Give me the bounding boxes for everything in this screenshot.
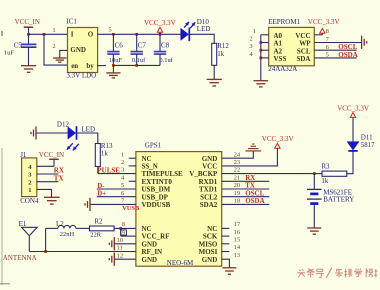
svg-text:5: 5 bbox=[326, 52, 329, 59]
wire antenna to RF_IN bbox=[29, 250, 136, 253]
power symbol VCC_3.3V (GPS VCC) bbox=[222, 135, 294, 166]
svg-text:VSS: VSS bbox=[274, 55, 287, 63]
svg-text:20: 20 bbox=[234, 182, 241, 189]
wire pin1 stub bbox=[129, 157, 136, 159]
svg-text:R3: R3 bbox=[321, 163, 330, 171]
ground (C5) bbox=[21, 66, 36, 73]
svg-text:1k: 1k bbox=[321, 177, 329, 185]
pin 5 label bbox=[121, 182, 124, 189]
capacitor C5 bbox=[4, 34, 37, 65]
svg-text:SDA: SDA bbox=[296, 55, 310, 63]
power symbol VCC_IN (top-left) bbox=[15, 18, 40, 34]
svg-text:1: 1 bbox=[253, 28, 256, 35]
wire node D- bbox=[97, 183, 136, 190]
svg-text:NEO-6M: NEO-6M bbox=[167, 259, 194, 267]
svg-text:0.1uf: 0.1uf bbox=[132, 57, 146, 64]
svg-text:C8: C8 bbox=[161, 42, 170, 50]
svg-text:22nH: 22nH bbox=[60, 231, 75, 238]
LED D12 bbox=[57, 120, 95, 150]
battery MS621FE bbox=[307, 174, 354, 228]
svg-text:11: 11 bbox=[117, 245, 123, 252]
svg-text:GPS1: GPS1 bbox=[145, 142, 162, 150]
wire node TX bbox=[37, 174, 64, 182]
pin 6 label bbox=[121, 190, 125, 197]
power symbol VCC_3.3V (EEPROM) bbox=[308, 18, 340, 35]
pin 2 label bbox=[121, 159, 124, 166]
svg-text:10: 10 bbox=[117, 237, 124, 244]
ground (VDDUSB, sideways) bbox=[85, 198, 90, 211]
pin 8 label bbox=[122, 221, 125, 228]
svg-text:D12: D12 bbox=[57, 120, 70, 128]
wire node RX bbox=[37, 167, 64, 175]
svg-text:R12: R12 bbox=[217, 42, 229, 50]
wire node RX (GPS) bbox=[222, 174, 270, 182]
svg-text:O: O bbox=[88, 31, 94, 39]
wire node TX (GPS) bbox=[222, 182, 270, 190]
ground (R12) bbox=[207, 79, 222, 86]
capacitor C7 bbox=[131, 34, 147, 65]
antenna E1 bbox=[3, 220, 37, 262]
pin 1 label bbox=[253, 28, 256, 35]
svg-text:R2: R2 bbox=[94, 217, 103, 225]
wire D10 cathode to R12 bbox=[190, 34, 215, 43]
svg-text:24: 24 bbox=[234, 151, 241, 158]
svg-text:PULSE: PULSE bbox=[97, 166, 120, 174]
svg-text:21: 21 bbox=[234, 174, 241, 181]
svg-text:C7: C7 bbox=[138, 42, 147, 50]
svg-text:D+: D+ bbox=[97, 191, 106, 198]
wire pin17 stub bbox=[222, 221, 241, 228]
pin 2 label bbox=[249, 36, 252, 43]
svg-text:D11: D11 bbox=[361, 134, 373, 142]
resistor R3 bbox=[314, 163, 347, 185]
wire node OSCL bbox=[314, 43, 357, 51]
svg-text:8: 8 bbox=[122, 221, 125, 228]
wire node D+ bbox=[97, 191, 136, 198]
pin 11 label bbox=[117, 245, 123, 252]
svg-text:C5: C5 bbox=[14, 41, 23, 49]
power symbol VCC_IN (J1) bbox=[37, 151, 64, 166]
pin 3 label bbox=[249, 43, 252, 50]
pin 1 label bbox=[121, 151, 124, 158]
resistor R13 bbox=[95, 142, 113, 166]
svg-text:19: 19 bbox=[234, 190, 241, 197]
svg-text:OSDA: OSDA bbox=[338, 51, 357, 59]
wire L2 to R2 bbox=[76, 227, 90, 229]
wire pin10 stub bbox=[114, 237, 136, 244]
LED D10 bbox=[181, 18, 211, 41]
svg-text:VCC_3.3V: VCC_3.3V bbox=[337, 105, 369, 113]
svg-text:9: 9 bbox=[122, 230, 125, 236]
svg-text:18: 18 bbox=[234, 198, 241, 205]
inductor L2 bbox=[56, 220, 76, 238]
wire R12 to ground bbox=[213, 65, 215, 79]
svg-text:C6: C6 bbox=[115, 42, 124, 50]
svg-text:VCC_3.3V: VCC_3.3V bbox=[144, 19, 176, 27]
svg-text:16: 16 bbox=[234, 229, 241, 236]
svg-text:TX: TX bbox=[54, 174, 64, 182]
svg-text:GND: GND bbox=[202, 256, 218, 264]
pin 9 label bbox=[121, 230, 127, 236]
ground (J1) bbox=[44, 197, 60, 204]
svg-text:SDA2: SDA2 bbox=[200, 201, 218, 209]
power symbol VCC_3.3V (LDO output) bbox=[144, 19, 176, 34]
svg-text:1k: 1k bbox=[217, 50, 225, 58]
ground (pin24, flipped up) bbox=[245, 144, 261, 151]
svg-text:3.3V LDO: 3.3V LDO bbox=[66, 72, 96, 80]
ground (pin13) bbox=[222, 268, 236, 274]
svg-text:1: 1 bbox=[121, 151, 124, 158]
wire EEPROM address bus bbox=[260, 35, 269, 81]
wire node OSCL (GPS) bbox=[222, 189, 270, 197]
wire WP to ground bbox=[314, 36, 361, 43]
svg-text:24AA32A: 24AA32A bbox=[268, 65, 297, 73]
wire node PULSE bbox=[97, 166, 135, 174]
svg-text:IC1: IC1 bbox=[66, 18, 77, 26]
svg-text:1: 1 bbox=[28, 187, 31, 194]
svg-text:1k: 1k bbox=[101, 150, 109, 158]
svg-text:2: 2 bbox=[249, 36, 252, 43]
wire IC1 GND pin bbox=[60, 50, 68, 57]
pin 4 label bbox=[121, 174, 125, 181]
svg-text:3: 3 bbox=[249, 43, 252, 50]
svg-text:VUSB: VUSB bbox=[122, 205, 140, 212]
wire D12 cathode to R13 bbox=[77, 133, 98, 144]
capacitor C8 bbox=[154, 34, 174, 65]
wire 3.3V output rail bbox=[98, 33, 181, 36]
watermark text bbox=[297, 268, 377, 278]
svg-text:ANTENNA: ANTENNA bbox=[3, 254, 37, 262]
power symbol VCC_3.3V (D11) bbox=[337, 105, 369, 118]
svg-text:VCC_IN: VCC_IN bbox=[15, 18, 40, 26]
pin 7 label bbox=[121, 198, 125, 205]
svg-text:1: 1 bbox=[52, 27, 55, 34]
svg-text:en: en bbox=[71, 62, 78, 70]
ground (pin10, sideways) bbox=[109, 237, 114, 250]
sheet border left edge bbox=[0, 31, 10, 285]
svg-text:GND: GND bbox=[70, 46, 86, 54]
wire pin15 stub bbox=[222, 237, 240, 244]
svg-text:3: 3 bbox=[121, 167, 124, 174]
wire pin13 to ground bbox=[222, 252, 240, 268]
op J1 CON4 box bbox=[20, 151, 39, 205]
svg-text:LED: LED bbox=[197, 25, 211, 33]
resistor R2 bbox=[90, 217, 115, 238]
ground (capacitor rail) bbox=[106, 65, 120, 78]
ground (WP, sideways) bbox=[362, 36, 367, 49]
wire GND pin24 to ground bbox=[222, 151, 254, 158]
pin 1 label bbox=[52, 27, 55, 34]
wire capacitor bottom rail bbox=[112, 64, 160, 67]
wire node OSDA bbox=[314, 51, 357, 59]
svg-text:2: 2 bbox=[52, 43, 55, 50]
ground (IC1 pin2) bbox=[53, 58, 66, 62]
op EEPROM1 24AA32A box bbox=[268, 18, 314, 73]
svg-text:VCC_3.3V: VCC_3.3V bbox=[262, 135, 294, 143]
ground (pin12, sideways) bbox=[109, 253, 114, 266]
wire R13 to PULSE bbox=[97, 167, 99, 174]
svg-text:22: 22 bbox=[234, 167, 241, 174]
svg-text:OSDA: OSDA bbox=[245, 197, 264, 205]
wire antenna riser bbox=[46, 228, 58, 251]
svg-text:10uF: 10uF bbox=[109, 57, 123, 64]
wire ground to D12 bbox=[36, 132, 68, 134]
svg-text:BATTERY: BATTERY bbox=[323, 196, 354, 204]
wire pin16 stub bbox=[222, 229, 241, 236]
capacitor C6 bbox=[107, 34, 123, 65]
wire VDDUSB to ground bbox=[90, 204, 140, 212]
svg-text:LED: LED bbox=[81, 126, 95, 134]
wire pin14 stub bbox=[222, 244, 241, 251]
svg-text:VCC_3.3V: VCC_3.3V bbox=[308, 18, 340, 26]
wire IC1 by stub bbox=[98, 65, 106, 67]
pin 5 label bbox=[108, 26, 111, 33]
ground (battery) bbox=[307, 228, 321, 234]
ground (D12, sideways) bbox=[31, 126, 36, 139]
pin 2 label bbox=[52, 43, 55, 50]
pin 3 label bbox=[121, 167, 124, 174]
svg-text:13: 13 bbox=[234, 252, 241, 259]
svg-text:15: 15 bbox=[234, 237, 241, 244]
svg-text:J1: J1 bbox=[20, 151, 27, 159]
svg-text:D-: D- bbox=[97, 183, 105, 190]
svg-text:by: by bbox=[86, 62, 94, 70]
svg-text:17: 17 bbox=[234, 221, 241, 228]
svg-text:23: 23 bbox=[234, 159, 241, 166]
wire R2 to VCC_RF bbox=[114, 227, 136, 236]
svg-text:14: 14 bbox=[234, 244, 241, 251]
svg-text:VDDUSB: VDDUSB bbox=[142, 201, 171, 209]
pin 4 label bbox=[249, 51, 253, 58]
svg-text:GND: GND bbox=[142, 256, 158, 264]
wire pin12 stub bbox=[114, 252, 136, 259]
svg-text:22R: 22R bbox=[90, 231, 102, 238]
op GPS1 NEO-6M box bbox=[136, 142, 222, 268]
wire IC1 enable bbox=[44, 34, 68, 65]
svg-text:5817: 5817 bbox=[361, 142, 375, 149]
wire R3 to D11 bbox=[347, 151, 353, 173]
wire pin2 stub bbox=[129, 165, 136, 167]
diode D11 5817 bbox=[347, 117, 375, 150]
svg-text:L2: L2 bbox=[56, 220, 64, 228]
op IC1 3.3V LDO box bbox=[66, 18, 97, 80]
svg-text:I: I bbox=[71, 31, 74, 39]
resistor R12 bbox=[212, 42, 230, 65]
node VCC_IN rail bbox=[27, 33, 67, 36]
svg-text:8: 8 bbox=[326, 28, 329, 35]
svg-text:5: 5 bbox=[121, 182, 124, 189]
svg-text:VCC_IN: VCC_IN bbox=[39, 151, 64, 159]
ground (EEPROM VSS) bbox=[254, 81, 269, 87]
svg-text:1uF: 1uF bbox=[4, 50, 15, 57]
wire V_BCKP to battery node bbox=[222, 167, 316, 175]
wire J1 pin1 to ground bbox=[37, 189, 52, 197]
svg-text:2: 2 bbox=[121, 159, 124, 166]
wire node OSDA (GPS) bbox=[222, 197, 270, 205]
svg-text:CON4: CON4 bbox=[20, 197, 39, 205]
svg-text:12: 12 bbox=[117, 252, 124, 259]
svg-text:5: 5 bbox=[108, 26, 111, 33]
wire pin4 stub bbox=[129, 180, 136, 182]
svg-text:0.1uf: 0.1uf bbox=[159, 57, 173, 64]
svg-text:EEPROM1: EEPROM1 bbox=[268, 18, 300, 26]
